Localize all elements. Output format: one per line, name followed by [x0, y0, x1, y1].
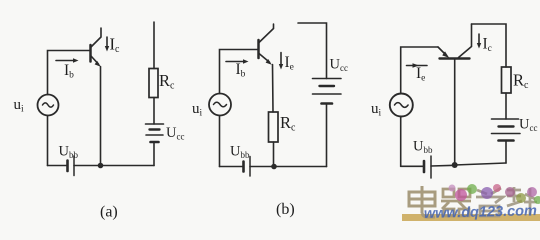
wire bottom left segment (a) — [48, 165, 68, 167]
svg-text:Ubb: Ubb — [413, 139, 433, 155]
wire bottom right segment (b) — [274, 166, 327, 168]
wire bottom right segment (a) — [101, 165, 155, 167]
current arrow I_e (c) — [407, 63, 428, 67]
resistor R_c (a) — [149, 69, 158, 98]
svg-text:ui: ui — [14, 97, 25, 114]
svg-text:Ib: Ib — [64, 62, 74, 80]
wire U_cc branch top (b) — [298, 23, 327, 79]
svg-text:(a): (a) — [100, 204, 118, 221]
wire base down to junction (c) — [454, 60, 456, 166]
current arrow I_b (a) — [56, 58, 79, 63]
svg-text:Ubb: Ubb — [230, 144, 250, 160]
wire bottom middle segment (c) — [431, 164, 455, 167]
battery U_cc (b) — [313, 79, 342, 104]
wire collector top to R_c branch (c) — [472, 24, 507, 67]
svg-text:Ubb: Ubb — [59, 144, 79, 160]
watermark character zi — [476, 188, 503, 216]
watermark character dian — [409, 186, 435, 217]
svg-text:(b): (b) — [276, 201, 295, 218]
svg-text:Rc: Rc — [280, 113, 296, 134]
svg-text:Rc: Rc — [159, 71, 175, 92]
wire bottom middle segment (b) — [250, 166, 274, 168]
watermark colour spots — [449, 184, 540, 204]
wire u_i bottom (c) — [400, 117, 402, 167]
wire R_c to battery (c) — [505, 93, 507, 119]
transistor (b) — [259, 24, 274, 65]
junction node (c) — [452, 162, 458, 168]
resistor R_c (c) — [502, 67, 512, 93]
transistor (c) — [438, 24, 472, 59]
wire R_c to battery (a) — [153, 98, 155, 125]
watermark band — [402, 214, 540, 221]
battery U_cc (c) — [492, 119, 521, 141]
wire bottom right segment (c) — [455, 163, 506, 165]
wire emitter to R_c (b) — [272, 65, 275, 113]
wire bottom left segment (b) — [220, 166, 244, 168]
current arrow I_b (b) — [226, 59, 249, 64]
wire battery to bottom (a) — [153, 142, 155, 166]
current arrow I_c (c) — [477, 34, 481, 49]
battery U_bb (c) — [424, 156, 431, 178]
wire u_i bottom (a) — [47, 116, 49, 166]
svg-text:Ic: Ic — [110, 35, 121, 56]
watermark character qi — [441, 189, 471, 216]
transistor (a) — [91, 28, 102, 67]
svg-text:Ie: Ie — [416, 65, 425, 83]
svg-text:Ie: Ie — [285, 54, 294, 72]
svg-text:www.dq123.com: www.dq123.com — [424, 203, 538, 222]
wire u_i bottom (b) — [219, 116, 221, 167]
wire u_i top to emitter (c) — [401, 47, 438, 94]
battery U_bb (b) — [244, 157, 251, 177]
current arrow I_c (a) — [105, 37, 109, 52]
svg-text:ui: ui — [192, 101, 203, 118]
wire battery to bottom (b) — [326, 104, 328, 167]
battery U_bb (a) — [68, 156, 75, 176]
resistor R_c (b) — [269, 112, 279, 142]
wire R_c to bottom (b) — [273, 142, 275, 167]
svg-text:Ic: Ic — [483, 36, 492, 54]
wire battery to bottom (c) — [505, 141, 507, 164]
wire bottom left segment (c) — [401, 165, 424, 167]
wire bottom middle segment (a) — [74, 165, 101, 167]
current arrow I_e (b) — [279, 53, 283, 70]
battery U_cc (a) — [146, 124, 164, 142]
ac source u_i (b) — [209, 94, 231, 116]
svg-text:Ucc: Ucc — [330, 57, 348, 73]
wire u_i top to base (b) — [220, 50, 259, 94]
wire u_i top to base (a) — [48, 51, 91, 95]
svg-text:ui: ui — [371, 101, 382, 118]
svg-text:Ucc: Ucc — [166, 125, 184, 141]
svg-text:Ucc: Ucc — [519, 117, 537, 133]
junction node (b) — [271, 164, 277, 170]
svg-text:Rc: Rc — [513, 71, 529, 92]
svg-text:Ib: Ib — [236, 61, 246, 79]
ac source u_i (a) — [38, 95, 59, 116]
wire collector branch top (a) — [153, 22, 155, 69]
watermark character liao — [507, 187, 537, 216]
ac source u_i (c) — [390, 94, 413, 117]
junction node (a) — [98, 163, 104, 169]
wire emitter down (a) — [100, 67, 102, 166]
